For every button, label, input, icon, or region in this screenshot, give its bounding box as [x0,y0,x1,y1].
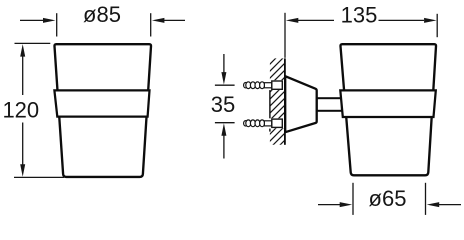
band (front view) [54,90,149,116]
screw top: anchor thread bumps [246,82,265,89]
svg-text:ø65: ø65 [369,186,407,211]
wall hatching [263,35,292,169]
dimension ø85: left extension line [56,13,58,36]
bracket cone [285,76,317,132]
dimension 135: right arrow [379,19,425,21]
wall left edge (between screws) [269,90,271,120]
dimension ø85: left arrow [20,19,43,21]
dimension 35: top arrow [223,54,225,73]
dimension 35: bottom tick [215,122,235,124]
svg-text:120: 120 [2,97,39,122]
cup body (front view) [54,44,151,177]
dimension 120: top arrow [22,56,24,95]
screw top: anchor tip [244,83,248,88]
screw bottom: anchor thread bumps [246,120,265,127]
cup body (side view) [340,44,436,175]
dimension 35: top tick [215,84,235,86]
dimension 120: bottom arrow [22,123,24,165]
dimension ø85: right extension line [150,13,152,36]
svg-text:135: 135 [341,3,378,28]
screw bottom: white cutout [269,118,284,128]
svg-text:ø85: ø85 [83,2,121,27]
dimension ø65: left arrow [318,204,340,206]
dimension 135: left arrow [298,19,334,21]
screw top: shaft [264,83,271,88]
dimension 135: left extension line [284,13,286,58]
screw top: block in wall [272,81,283,89]
screw top: white cutout [269,80,284,90]
screw bottom: anchor tip [244,121,248,126]
band (side view) [340,90,436,117]
dimension ø65: right extension line [425,183,427,215]
dimension 120: bottom extension line [14,176,64,178]
svg-text:35: 35 [211,92,235,117]
dimension ø65: right arrow [439,204,461,206]
dimension ø85: right arrow [164,19,185,21]
arm [317,98,342,111]
dimension 120: top extension line [15,42,51,44]
wall left edge stub below bottom screw [269,129,271,132]
screw bottom: shaft [264,121,271,126]
dimension ø65: left extension line [352,183,354,215]
screw bottom: block in wall [272,119,283,127]
dimension 135: right extension line [436,14,438,37]
dimension 35: bottom arrow [223,135,225,159]
wall right edge [284,58,286,144]
